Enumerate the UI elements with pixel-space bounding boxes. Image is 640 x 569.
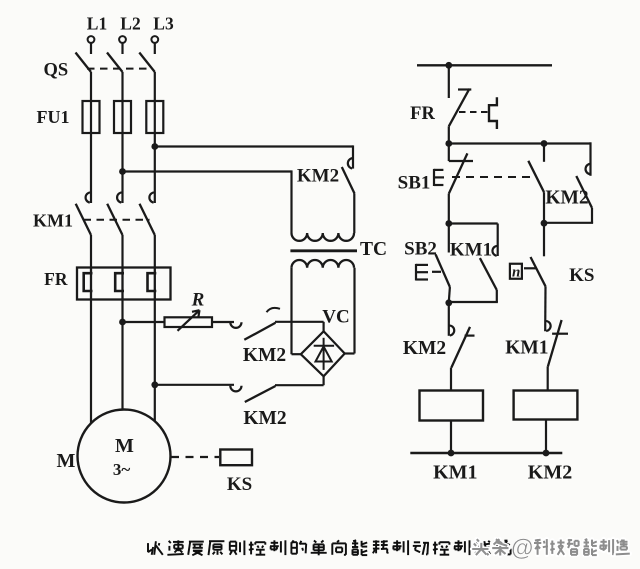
svg-text:KM2: KM2 — [545, 188, 588, 209]
svg-text:KM2: KM2 — [243, 408, 286, 429]
svg-text:TC: TC — [360, 239, 387, 260]
svg-text:KS: KS — [569, 265, 594, 286]
svg-text:KM1: KM1 — [450, 240, 492, 261]
svg-text:3~: 3~ — [113, 460, 131, 479]
svg-text:M: M — [57, 450, 76, 472]
svg-text:KM1: KM1 — [33, 211, 73, 231]
svg-text:R: R — [191, 290, 205, 311]
svg-text:KM1: KM1 — [505, 338, 548, 359]
svg-text:M: M — [115, 435, 134, 457]
svg-text:L3: L3 — [153, 14, 174, 34]
svg-text:KS: KS — [227, 474, 252, 495]
svg-text:KM1: KM1 — [433, 462, 477, 484]
svg-text:KM2: KM2 — [528, 462, 572, 484]
svg-text:L2: L2 — [120, 14, 140, 34]
svg-text:L1: L1 — [87, 14, 107, 34]
svg-text:n: n — [512, 265, 520, 281]
svg-text:QS: QS — [43, 61, 68, 81]
svg-text:@: @ — [511, 535, 533, 561]
svg-text:FR: FR — [44, 269, 68, 289]
svg-text:SB2: SB2 — [404, 239, 437, 260]
svg-text:KM2: KM2 — [403, 338, 446, 359]
svg-text:SB1: SB1 — [398, 173, 431, 194]
svg-text:FU1: FU1 — [37, 107, 70, 127]
svg-text:KM2: KM2 — [297, 166, 339, 187]
svg-text:FR: FR — [410, 104, 435, 124]
svg-text:VC: VC — [322, 307, 349, 328]
svg-text:KM2: KM2 — [243, 345, 286, 366]
